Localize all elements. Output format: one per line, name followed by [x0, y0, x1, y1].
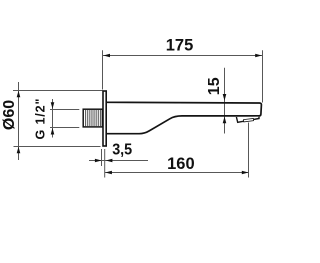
svg-text:160: 160 — [167, 154, 195, 173]
svg-text:Ø60: Ø60 — [1, 100, 18, 130]
svg-text:3,5: 3,5 — [112, 141, 132, 158]
svg-text:15: 15 — [206, 77, 223, 95]
svg-text:175: 175 — [166, 36, 194, 55]
svg-text:G 1/2": G 1/2" — [33, 98, 47, 140]
